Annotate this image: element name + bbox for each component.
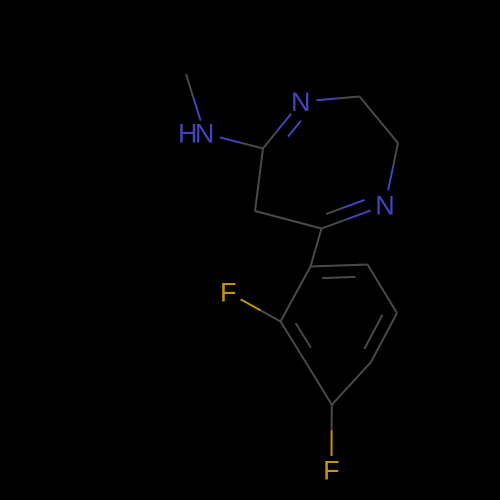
svg-text:N: N [195, 119, 215, 149]
svg-text:N: N [375, 191, 395, 221]
svg-text:F: F [220, 278, 237, 308]
svg-text:F: F [323, 456, 340, 486]
svg-text:N: N [291, 87, 311, 117]
